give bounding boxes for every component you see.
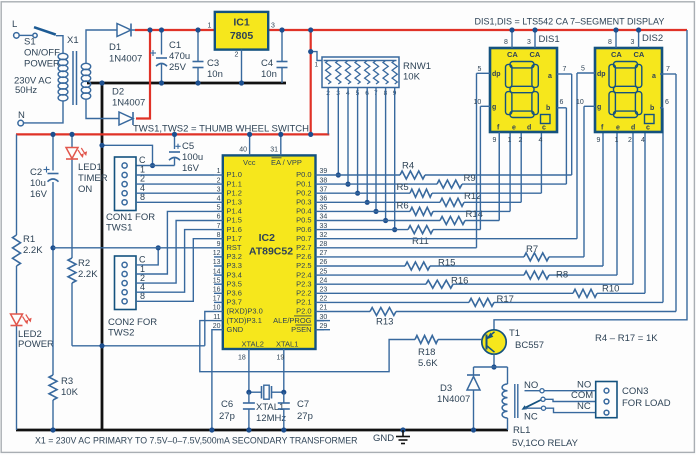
label DIS1 CA CA — [507, 50, 541, 59]
svg-text:9: 9 — [493, 137, 497, 144]
svg-text:P0.0: P0.0 — [296, 170, 311, 179]
svg-text:R8: R8 — [556, 270, 568, 281]
svg-text:P2.4: P2.4 — [296, 270, 311, 279]
junction LED1 top — [69, 132, 74, 137]
junction ground spur — [99, 143, 104, 148]
junction CON1 common — [150, 163, 155, 168]
wire: P2.7 row to DIS1 dp — [324, 73, 477, 248]
pin 2 IC1 wire — [235, 50, 245, 86]
label R8 — [556, 270, 568, 281]
junctions RNW1 columns on port rows — [336, 172, 398, 232]
IC2 left pins and labels — [213, 168, 263, 334]
svg-text:P1.7: P1.7 — [227, 234, 242, 243]
svg-text:R11: R11 — [412, 236, 429, 247]
label EA/VPP — [271, 158, 302, 167]
svg-text:XTAL1: XTAL1 — [276, 340, 298, 349]
svg-text:25: 25 — [320, 268, 328, 275]
svg-text:NC: NC — [577, 401, 591, 412]
transformer X1 core — [73, 51, 77, 105]
svg-text:TIMER: TIMER — [78, 173, 108, 184]
svg-text:13: 13 — [213, 259, 221, 266]
svg-text:DIS1,DIS = LTS542 CA 7–SEGMENT: DIS1,DIS = LTS542 CA 7–SEGMENT DISPLAY — [475, 17, 665, 27]
wire: segment d riser DIS1 — [520, 132, 522, 202]
svg-text:20: 20 — [213, 323, 221, 330]
svg-text:BC557: BC557 — [515, 340, 544, 351]
wire: P3.0 riser — [205, 312, 214, 346]
wire: P2.3 row — [324, 283, 633, 285]
label CON2 rows — [139, 254, 146, 301]
svg-text:2.2K: 2.2K — [23, 245, 43, 256]
pin 1 RNW1 — [315, 62, 319, 69]
regulator IC1 7805 box — [215, 12, 268, 50]
ground symbol — [396, 427, 410, 443]
label NO at CON3 — [577, 380, 591, 391]
svg-text:R9: R9 — [464, 173, 476, 184]
svg-text:CA: CA — [507, 50, 518, 59]
svg-text:(RXD)P3.0: (RXD)P3.0 — [227, 307, 263, 316]
svg-text:3: 3 — [527, 39, 531, 46]
resistor R3 — [49, 375, 57, 400]
pin 6 DIS1 b wire — [557, 99, 566, 108]
wire: ground spur to CON1 common — [102, 145, 153, 165]
svg-text:ON/OFF: ON/OFF — [24, 48, 60, 59]
svg-text:9: 9 — [597, 137, 601, 144]
label CON1 rows — [139, 155, 146, 202]
svg-text:P0.1: P0.1 — [296, 179, 311, 188]
pin 5 DIS1 dp stub — [477, 66, 491, 73]
svg-text:CA: CA — [634, 50, 645, 59]
diode D3 — [467, 367, 480, 430]
svg-text:16V: 16V — [30, 189, 48, 200]
transformer X1 primary winding — [58, 53, 68, 101]
wire: PSEN stub — [316, 329, 331, 331]
svg-text:P1.4: P1.4 — [227, 207, 242, 216]
svg-text:16V: 16V — [182, 163, 200, 174]
label IC2 AT89C52 — [249, 232, 293, 258]
resistor R10 — [573, 289, 597, 297]
svg-text:COM: COM — [571, 390, 593, 401]
svg-text:R2: R2 — [78, 258, 90, 269]
svg-text:C2: C2 — [30, 167, 42, 178]
svg-text:1N4007: 1N4007 — [109, 54, 142, 65]
label CON1 FOR TWS1 — [106, 212, 155, 234]
svg-text:2: 2 — [235, 52, 239, 59]
label X1 transformer note — [35, 436, 357, 446]
svg-text:2: 2 — [628, 137, 632, 144]
label LED1 TIMER ON — [78, 162, 108, 195]
svg-text:4: 4 — [539, 137, 543, 144]
svg-text:27: 27 — [320, 250, 328, 257]
resistor R11 — [408, 226, 433, 234]
wire: ground vertical bus (black) — [101, 83, 104, 430]
resistor R1 — [13, 235, 21, 266]
svg-text:P1.0: P1.0 — [227, 170, 242, 179]
resistor R12 — [440, 198, 464, 206]
svg-text:40: 40 — [239, 147, 247, 154]
wire: D2 cathode riser (red) — [136, 30, 150, 119]
svg-text:100u: 100u — [182, 152, 203, 163]
svg-text:R17: R17 — [497, 294, 514, 305]
wire: segment f riser DIS2 — [602, 132, 604, 266]
svg-text:g: g — [492, 104, 496, 111]
label RNW1 10K — [403, 61, 431, 83]
resistor network RNW1 box — [322, 57, 399, 88]
wire: CON2 row8 to P1.7 — [136, 239, 214, 302]
label C3 10n — [207, 58, 223, 80]
svg-text:X1: X1 — [67, 35, 79, 46]
svg-text:10n: 10n — [207, 69, 223, 80]
pin 8 DIS1 CA wire — [504, 27, 515, 48]
wire: R1/LED2 column — [16, 134, 18, 430]
svg-text:ALE/PROG: ALE/PROG — [273, 316, 312, 325]
wire: CON1 row8 to P1.3 — [136, 201, 214, 203]
svg-text:P2.6: P2.6 — [296, 252, 311, 261]
svg-text:8: 8 — [217, 232, 221, 239]
svg-text:C4: C4 — [261, 58, 273, 69]
svg-text:34: 34 — [320, 214, 328, 221]
svg-text:P0.2: P0.2 — [296, 188, 311, 197]
label R10 — [602, 284, 619, 295]
svg-text:C: C — [139, 155, 146, 165]
svg-text:P0.5: P0.5 — [296, 216, 311, 225]
resistor R16 — [426, 280, 453, 288]
svg-text:R3: R3 — [61, 376, 73, 387]
svg-text:10: 10 — [474, 99, 482, 106]
pin 6 DIS2 b wire — [660, 99, 669, 108]
svg-text:10: 10 — [576, 99, 584, 106]
svg-text:P0.7: P0.7 — [296, 234, 311, 243]
relay RL1 coil — [502, 367, 507, 430]
svg-text:P2.1: P2.1 — [296, 298, 311, 307]
connector CON2 — [115, 256, 137, 310]
wire: RNW1 pin1 to +5V — [308, 49, 322, 61]
svg-text:TWS2: TWS2 — [108, 328, 134, 339]
pin 2 DIS2 d wire — [628, 137, 632, 144]
svg-text:27p: 27p — [297, 411, 313, 422]
svg-text:33: 33 — [320, 223, 328, 230]
svg-text:10u: 10u — [30, 178, 46, 189]
svg-text:RL1: RL1 — [513, 425, 530, 436]
svg-text:P1.5: P1.5 — [227, 216, 242, 225]
label DIS2 segment letters — [597, 71, 656, 132]
wire: +5V right-edge feed to T1 emitter — [494, 30, 687, 331]
svg-text:a: a — [652, 73, 656, 80]
wire: P3.1 to relay drive — [200, 321, 415, 372]
svg-text:C: C — [139, 254, 146, 264]
svg-text:TWS1: TWS1 — [106, 223, 132, 234]
diode D2 — [119, 112, 133, 125]
wire: LED1/R2 column — [71, 134, 73, 345]
label TWS note — [133, 124, 309, 135]
wire: P0.3 row — [324, 201, 521, 203]
svg-text:P1.3: P1.3 — [227, 198, 242, 207]
label T1 BC557 — [509, 328, 544, 351]
svg-text:16: 16 — [213, 287, 221, 294]
resistor R15 — [405, 262, 430, 270]
label COM at CON3 — [571, 390, 593, 401]
svg-text:10: 10 — [213, 305, 221, 312]
pin 3 IC1 — [271, 23, 275, 30]
svg-text:P0.4: P0.4 — [296, 207, 311, 216]
svg-text:37: 37 — [320, 186, 328, 193]
relay NO contact — [525, 389, 545, 393]
wire: bottom ground rail (black) — [16, 429, 508, 432]
svg-text:1: 1 — [508, 137, 512, 144]
svg-text:P3.6: P3.6 — [227, 289, 242, 298]
svg-text:5: 5 — [217, 205, 221, 212]
resistor R13 — [370, 308, 396, 316]
relay NC contact — [525, 406, 546, 410]
svg-text:15: 15 — [213, 277, 221, 284]
svg-text:IC2: IC2 — [259, 232, 276, 244]
capacitor C7 — [278, 392, 290, 432]
svg-text:LED1: LED1 — [78, 162, 102, 173]
svg-text:25V: 25V — [169, 62, 187, 73]
svg-text:22: 22 — [320, 296, 328, 303]
label IC1 7805 — [230, 17, 254, 43]
pin 31 EA/VPP wire — [270, 132, 283, 156]
svg-text:39: 39 — [320, 168, 328, 175]
svg-text:10K: 10K — [61, 387, 79, 398]
label DIS1 segment letters — [492, 71, 552, 132]
wire: CON2 common to reset line — [136, 248, 158, 265]
pin 10 DIS2 g wire — [576, 99, 595, 106]
svg-text:c: c — [646, 125, 650, 132]
wire: GND pin to ground rail — [212, 330, 214, 430]
capacitor C5 — [169, 132, 181, 166]
svg-text:P2.7: P2.7 — [296, 243, 311, 252]
resistor R4 — [400, 171, 425, 179]
junction GND pin at ground rail — [209, 427, 214, 432]
label R11 — [412, 236, 429, 247]
label LED2 POWER — [18, 329, 54, 350]
svg-text:7805: 7805 — [230, 30, 254, 42]
junction crystal left — [246, 390, 251, 395]
svg-text:b: b — [650, 105, 654, 112]
label R18 5.6K — [418, 347, 438, 369]
svg-text:CON1 FOR: CON1 FOR — [106, 212, 155, 223]
junction ground bus top — [99, 80, 104, 85]
capacitor C2 — [44, 167, 59, 182]
svg-text:30: 30 — [320, 314, 328, 321]
svg-text:P3.3: P3.3 — [227, 261, 242, 270]
svg-text:C6: C6 — [221, 399, 233, 410]
svg-text:C1: C1 — [169, 40, 181, 51]
svg-text:P3.5: P3.5 — [227, 279, 242, 288]
svg-text:RST: RST — [227, 243, 242, 252]
svg-text:c: c — [542, 125, 546, 132]
svg-text:2.2K: 2.2K — [78, 269, 98, 280]
relay armature — [522, 397, 546, 410]
svg-text:D3: D3 — [440, 383, 452, 394]
display DIS2 dp square — [645, 115, 655, 124]
transformer X1 secondary winding — [81, 63, 90, 99]
svg-text:8: 8 — [504, 39, 508, 46]
pin 1 DIS2 e wire — [615, 137, 619, 144]
label XTAL1 12MHz — [256, 402, 286, 424]
pin 18 XTAL2 wire — [238, 349, 249, 392]
svg-text:10n: 10n — [261, 69, 277, 80]
svg-text:GND: GND — [227, 325, 244, 334]
label C5 100u 16V — [182, 141, 203, 174]
svg-text:R4: R4 — [402, 161, 414, 172]
wire: +5V drop to lower rail (red) — [310, 30, 312, 134]
svg-text:S1: S1 — [24, 37, 36, 48]
pin 8 DIS2 CA wire — [608, 27, 619, 48]
junction collector bus — [491, 364, 496, 369]
svg-text:19: 19 — [277, 355, 285, 362]
svg-text:6: 6 — [217, 214, 221, 221]
wire: reset line to RST — [53, 247, 214, 249]
svg-text:L: L — [12, 19, 17, 30]
wire: segment a riser DIS1 — [571, 74, 573, 175]
display DIS2 body — [595, 48, 662, 132]
svg-text:9: 9 — [217, 241, 221, 248]
svg-text:P1.2: P1.2 — [227, 188, 242, 197]
svg-text:D1: D1 — [109, 42, 121, 53]
svg-text:35: 35 — [320, 205, 328, 212]
svg-text:P2.5: P2.5 — [296, 261, 311, 270]
wire: segment g riser DIS1 — [479, 106, 481, 229]
resistor R9 — [437, 180, 462, 188]
pin 1 IC1 — [208, 23, 212, 30]
svg-text:N: N — [18, 110, 25, 121]
svg-text:1: 1 — [315, 62, 319, 69]
svg-text:CA: CA — [530, 50, 541, 59]
wire: transformer centre-tap to ground bus (black) — [87, 82, 286, 85]
svg-text:12: 12 — [213, 250, 221, 257]
wire: C2/R3 column — [52, 134, 54, 430]
svg-text:17: 17 — [213, 296, 221, 303]
svg-text:b: b — [546, 105, 550, 112]
label RL1 5V,1CO RELAY — [512, 425, 579, 449]
label C4 10n — [261, 58, 277, 80]
label DIS2 CA CA — [611, 50, 645, 59]
wire: CON2 row4 to P1.6 — [136, 230, 214, 293]
svg-text:R6: R6 — [397, 201, 409, 212]
label R9 — [464, 173, 476, 184]
svg-text:d: d — [527, 125, 531, 132]
wire: NO to CON3 — [544, 390, 596, 392]
svg-text:27p: 27p — [219, 411, 235, 422]
svg-text:P2.0: P2.0 — [296, 307, 311, 316]
label X1 — [67, 35, 79, 46]
wire: crystal row — [249, 391, 284, 393]
svg-text:23: 23 — [320, 287, 328, 294]
svg-text:7: 7 — [563, 66, 567, 73]
pin 3 DIS2 CA wire — [631, 27, 642, 48]
pin 1 DIS1 e wire — [508, 137, 512, 144]
label C1 470u 25V — [169, 40, 190, 73]
svg-text:6: 6 — [560, 99, 564, 106]
svg-text:R7: R7 — [526, 244, 538, 255]
svg-text:g: g — [597, 104, 601, 111]
svg-text:1N4007: 1N4007 — [112, 98, 145, 109]
svg-text:4: 4 — [641, 137, 645, 144]
svg-text:R12: R12 — [464, 191, 481, 202]
connector CON3 — [596, 382, 617, 418]
capacitor C4 — [277, 27, 288, 83]
svg-text:dp: dp — [597, 71, 606, 78]
transistor T1 body — [482, 330, 506, 354]
wire: segment c riser DIS2 — [644, 132, 646, 293]
label R3 10K — [61, 376, 79, 398]
svg-text:6: 6 — [665, 99, 669, 106]
svg-text:3: 3 — [271, 23, 275, 30]
svg-text:14: 14 — [213, 268, 221, 275]
svg-text:e: e — [512, 125, 516, 132]
wire: switch to transformer primary — [56, 36, 63, 54]
junction reset node at C2 — [50, 245, 55, 250]
wire: segment e riser DIS2 — [616, 132, 618, 275]
label C7 27p — [297, 399, 313, 422]
svg-text:7: 7 — [217, 223, 221, 230]
svg-text:P2.3: P2.3 — [296, 279, 311, 288]
svg-text:5.6K: 5.6K — [418, 358, 438, 369]
svg-text:EA / VPP: EA / VPP — [271, 158, 302, 167]
svg-text:AT89C52: AT89C52 — [249, 246, 293, 258]
svg-text:5: 5 — [478, 66, 482, 73]
label R16 — [451, 276, 468, 287]
display DIS1 dp square — [541, 115, 551, 124]
svg-text:P0.3: P0.3 — [296, 198, 311, 207]
wire: R18 to T1 base — [438, 339, 482, 341]
label R6 — [397, 201, 409, 212]
pin 4 DIS1 c wire — [539, 137, 543, 144]
label R15 — [438, 258, 455, 269]
svg-text:R13: R13 — [376, 317, 393, 328]
svg-text:X1 = 230V AC PRIMARY TO 7.5V–0: X1 = 230V AC PRIMARY TO 7.5V–0–7.5V,500m… — [35, 436, 357, 446]
svg-text:P0.6: P0.6 — [296, 225, 311, 234]
svg-text:POWER: POWER — [24, 59, 60, 70]
svg-text:CON3: CON3 — [622, 386, 648, 397]
crystal XTAL1 — [262, 385, 272, 399]
junction C2 top — [50, 132, 55, 137]
svg-text:12MHz: 12MHz — [256, 413, 286, 424]
LED LED1 — [66, 148, 87, 160]
resistor R6 — [410, 207, 433, 215]
svg-text:GND: GND — [373, 433, 394, 444]
wire: L to switch — [19, 34, 32, 36]
label DIS1 — [539, 34, 560, 45]
resistor R17 — [469, 298, 494, 306]
svg-text:7: 7 — [666, 66, 670, 73]
display DIS1 body — [490, 48, 557, 132]
svg-text:2: 2 — [519, 137, 523, 144]
label XTAL2 XTAL1 — [242, 340, 299, 349]
wire: collector bus — [474, 366, 508, 368]
svg-text:5V,1CO RELAY: 5V,1CO RELAY — [512, 438, 579, 449]
label S1 ON/OFF POWER — [24, 37, 60, 70]
svg-text:28: 28 — [320, 241, 328, 248]
junction CON2 common on reset line — [156, 245, 161, 250]
wire: segment b riser DIS2 — [662, 108, 664, 303]
svg-text:38: 38 — [320, 177, 328, 184]
resistor R8 — [524, 271, 549, 279]
relay RL1 core — [515, 384, 518, 418]
svg-text:IC1: IC1 — [233, 17, 250, 29]
pin 10 DIS1 g wire — [474, 99, 491, 106]
svg-text:36: 36 — [320, 196, 328, 203]
label 230V AC 50Hz — [14, 76, 52, 97]
wire: P0.0 row — [324, 174, 572, 176]
svg-text:Vcc: Vcc — [243, 158, 256, 167]
microcontroller IC2 box — [223, 155, 316, 349]
svg-text:C3: C3 — [207, 58, 219, 69]
svg-text:3: 3 — [217, 186, 221, 193]
svg-text:P1.6: P1.6 — [227, 225, 242, 234]
label CON2 FOR TWS2 — [108, 317, 157, 339]
